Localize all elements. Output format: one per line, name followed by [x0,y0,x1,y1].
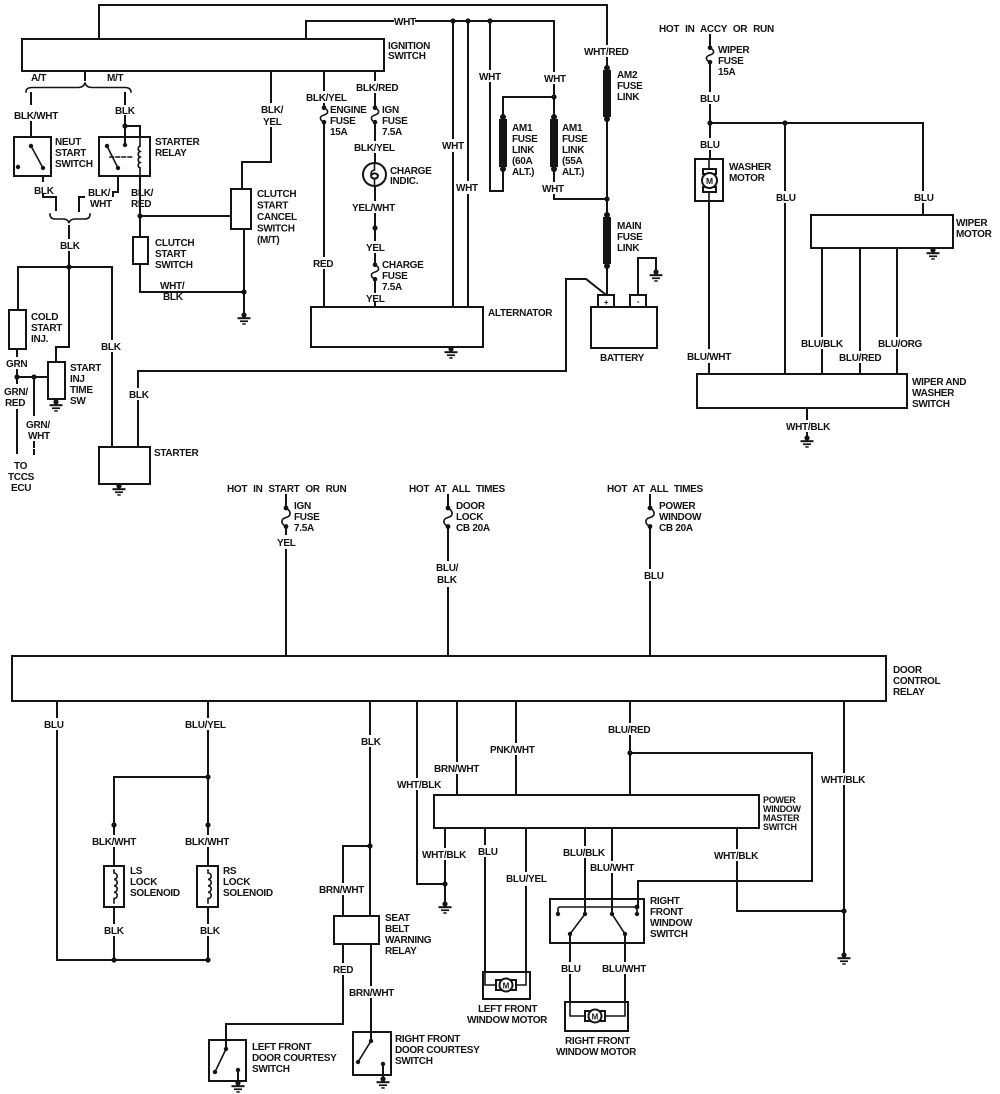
svg-text:ALT.): ALT.) [512,167,534,178]
svg-text:BLK/WHT: BLK/WHT [185,837,229,848]
svg-text:BLU/ORG: BLU/ORG [878,339,923,350]
node: YEL junction [372,225,377,230]
svg-text:RED: RED [5,398,25,409]
svg-text:MAIN: MAIN [617,221,641,232]
svg-text:BLK/: BLK/ [131,188,154,199]
wire BLU/RED into master switch [629,753,631,795]
svg-text:CLUTCH: CLUTCH [257,189,296,200]
clutch start switch box [133,237,148,264]
svg-text:DOOR COURTESY: DOOR COURTESY [395,1045,480,1056]
seat belt warning relay box [334,916,379,944]
svg-text:CB 20A: CB 20A [456,523,490,534]
svg-text:WHT/BLK: WHT/BLK [422,850,467,861]
svg-text:(M/T): (M/T) [257,235,279,246]
svg-text:WHT/BLK: WHT/BLK [821,775,866,786]
left front window motor box [483,972,530,999]
ground: alternator [450,347,452,349]
svg-text:AM1: AM1 [562,123,583,134]
svg-text:SWITCH: SWITCH [257,224,295,235]
svg-text:WHT: WHT [479,72,501,83]
svg-text:WHT/BLK: WHT/BLK [714,851,759,862]
svg-text:STARTER: STARTER [154,448,199,459]
wire from cancel switch to ground node [243,229,245,315]
node: bus feed dot [635,905,640,910]
fuse: ENGINE FUSE 15A [320,106,327,125]
svg-text:RED: RED [333,965,353,976]
wire BLK/RED from starter relay coil [139,176,141,216]
node: WHT bus junction 2 [465,18,470,23]
svg-text:FUSE: FUSE [512,134,538,145]
right front window switch box [550,899,644,943]
wire BRN/WHT relay to master switch [456,701,458,795]
svg-text:7.5A: 7.5A [382,127,402,138]
ground: start inj time sw [55,399,57,402]
svg-text:HOT AT ALL TIMES: HOT AT ALL TIMES [409,484,506,495]
svg-text:RED: RED [313,259,333,270]
ground: wiper motor [927,247,940,259]
svg-text:RS: RS [223,866,237,877]
wire BLU master switch to left window motor [484,828,486,972]
wire BLU switch to right window motor [569,934,571,1002]
wire RED to left courtesy switch [226,944,343,1040]
wire BLK tap to start inj time sw [56,267,69,362]
LS solenoid coil [114,870,117,903]
fuse link AM1 (60A ALT.) [500,114,506,120]
fuse link AM2 [604,65,610,71]
node: WHT/BLK ground junction [442,881,447,886]
svg-text:WHT: WHT [28,431,50,442]
svg-text:BRN/WHT: BRN/WHT [349,988,394,999]
fuse: CHARGE FUSE 7.5A [371,263,378,282]
wire WHT from right AM1 to main bus [554,171,607,199]
starter relay contacts and arm [123,143,127,147]
brace joining BLK and BLK/WHT [50,214,90,223]
node: BLK junction at seat belt relay [367,843,372,848]
svg-text:BLU/: BLU/ [436,563,459,574]
wire WHT/BLK switch to ground [806,408,808,438]
node: solenoid return junction left [111,957,116,962]
svg-text:SWITCH: SWITCH [763,822,797,832]
wire BLU/YEL to RS solenoid [207,777,209,825]
svg-text:BLU/WHT: BLU/WHT [590,863,634,874]
svg-text:LINK: LINK [617,243,640,254]
svg-text:LINK: LINK [617,92,640,103]
ground: master switch [444,884,446,904]
svg-text:BLU/YEL: BLU/YEL [185,720,226,731]
svg-text:AM2: AM2 [617,70,638,81]
left front door courtesy switch box [209,1040,246,1081]
svg-text:YEL: YEL [277,538,296,549]
node: RS solenoid feed [205,822,210,827]
svg-text:BLK: BLK [104,926,125,937]
alternator box [311,307,483,347]
wire branch BRN/WHT into seat belt relay [343,846,370,916]
svg-text:INJ.: INJ. [31,334,49,345]
fuse: WIPER FUSE 15A [706,46,713,65]
breaker: POWER WINDOW CB 20A [649,495,651,506]
svg-text:BLK: BLK [60,241,81,252]
svg-text:15A: 15A [330,127,348,138]
node: WHT/BLK junction [841,908,846,913]
ignition switch box [22,39,384,71]
wire BLU to door control relay [649,527,651,656]
svg-text:FUSE: FUSE [562,134,588,145]
svg-text:FUSE: FUSE [382,116,408,127]
wire BLK/YEL engine fuse branch [323,71,325,307]
svg-text:IGN: IGN [382,105,399,116]
wire WHT/BLK from clutch start switch [140,264,244,292]
svg-text:YEL: YEL [366,294,385,305]
battery negative terminal [630,295,646,307]
svg-text:HOT IN START OR RUN: HOT IN START OR RUN [227,484,346,495]
right courtesy switch contacts and arm [370,1032,372,1041]
wire BLK distribution [18,267,112,447]
wire BLK/YEL from ignition switch to cancel switch [242,71,271,189]
wire BLK/RED into clutch start switch [139,216,141,237]
svg-text:RIGHT FRONT: RIGHT FRONT [565,1036,630,1047]
svg-text:RED: RED [131,199,151,210]
svg-text:LOCK: LOCK [456,512,484,523]
svg-text:ALTERNATOR: ALTERNATOR [488,308,553,319]
svg-text:RIGHT: RIGHT [650,896,680,907]
wire BLK/RED to clutch start cancel switch [140,215,231,217]
svg-text:WIPER: WIPER [956,218,988,229]
svg-text:LOCK: LOCK [223,877,251,888]
svg-text:FUSE: FUSE [617,232,643,243]
starter relay box [99,137,150,176]
wire WHT to left AM1 fuse link bottom [490,21,503,191]
right front door courtesy switch box [353,1032,391,1075]
wire BLU/YEL master switch to left window motor [525,828,527,972]
svg-text:BLU/YEL: BLU/YEL [506,874,547,885]
washer motor box [695,159,723,201]
svg-text:7.5A: 7.5A [294,523,314,534]
wire BLU/WHT switch to right window motor [624,934,626,1002]
svg-text:BLU: BLU [478,847,498,858]
svg-text:BATTERY: BATTERY [600,353,645,364]
svg-text:WHT/BLK: WHT/BLK [786,422,831,433]
wire BLK to starter relay [125,93,140,146]
svg-text:SWITCH: SWITCH [912,399,950,410]
svg-text:BLK: BLK [361,737,382,748]
neut start switch contacts and arm [29,144,33,148]
right window motor symbol [570,1002,625,1016]
svg-text:WHT/BLK: WHT/BLK [397,780,442,791]
svg-text:WHT: WHT [442,141,464,152]
node: BLK/RED junction [137,213,142,218]
right window switch arms [570,914,625,934]
svg-text:SOLENOID: SOLENOID [130,888,180,899]
right front window motor box [565,1002,628,1031]
svg-text:START: START [70,363,101,374]
svg-text:CONTROL: CONTROL [893,676,941,687]
svg-text:DOOR: DOOR [456,501,486,512]
fuse link AM1 (55A ALT.) [551,114,557,120]
svg-text:M: M [592,1013,599,1022]
svg-text:BLU: BLU [914,193,934,204]
svg-text:BLK: BLK [129,390,150,401]
svg-text:YEL: YEL [263,117,282,128]
wire: ignition switch feed to top WHT bus [99,5,607,66]
svg-text:FUSE: FUSE [330,116,356,127]
svg-text:M: M [706,176,713,186]
svg-text:FUSE: FUSE [294,512,320,523]
svg-text:STARTER: STARTER [155,137,200,148]
node: solenoid return junction right [205,957,210,962]
node: LS solenoid feed [111,822,116,827]
svg-text:ENGINE: ENGINE [330,105,367,116]
fuse: IGN FUSE 7.5A [285,495,287,506]
svg-text:SWITCH: SWITCH [650,929,688,940]
wire BLK into seat belt relay [369,846,371,916]
svg-text:SWITCH: SWITCH [395,1056,433,1067]
wire BLK from relay to seat belt warning relay [369,701,371,846]
svg-text:TO: TO [14,461,28,472]
node: BLU junction for switch feed [782,120,787,125]
svg-text:BLK/: BLK/ [88,188,111,199]
wire WHT alternator sense 2 [467,21,469,307]
svg-text:RELAY: RELAY [385,946,417,957]
door control relay box [12,656,886,701]
brace A/T,M/T [26,83,131,93]
wire BLU/RED wiper motor to switch [859,248,861,374]
charge indicator bulb [363,163,386,186]
wire BLK/WHT from starter relay [79,176,118,211]
svg-text:BLU: BLU [644,571,664,582]
svg-text:WIPER: WIPER [718,45,750,56]
svg-text:YEL/WHT: YEL/WHT [352,203,395,214]
wire battery negative to ground [638,258,656,295]
svg-text:NEUT: NEUT [55,137,81,148]
wire BLK from RS solenoid [207,907,209,960]
svg-text:WHT: WHT [544,74,566,85]
svg-text:TIME: TIME [70,385,93,396]
ground: starter [118,484,120,486]
svg-text:CLUTCH: CLUTCH [155,238,194,249]
terminal tick under ignition switch [84,71,86,80]
svg-text:AM1: AM1 [512,123,533,134]
wire PNK/WHT relay to master switch [515,701,517,795]
svg-text:WINDOW: WINDOW [659,512,702,523]
svg-text:BLU/RED: BLU/RED [608,725,650,736]
wire YEL to door control relay [285,527,287,656]
wire WHT/BLK master switch to ground junction [444,828,446,884]
node: GRN junction 2 [31,374,36,379]
svg-text:BLU/BLK: BLU/BLK [563,848,606,859]
svg-text:WIPER AND: WIPER AND [912,377,966,388]
svg-text:M/T: M/T [107,73,124,84]
starter relay coil [138,146,140,168]
neut start switch box [14,137,51,176]
svg-text:START: START [155,249,186,260]
svg-text:BLK/RED: BLK/RED [356,83,398,94]
svg-text:BLK/: BLK/ [261,105,284,116]
wire BLK/WHT into RS solenoid [207,825,209,866]
wire BLK/WHT into LS solenoid [113,825,115,866]
svg-text:COLD: COLD [31,312,58,323]
wire BLU/BLK to door control relay [447,527,449,656]
wire BRN/WHT to right courtesy switch [370,944,372,1032]
svg-text:WASHER: WASHER [729,162,772,173]
svg-text:+: + [604,298,609,307]
wire WHT alternator sense 1 [452,21,454,307]
wire BLK from LS solenoid [113,907,115,960]
ground: left courtesy switch [237,1070,239,1083]
svg-text:BLK: BLK [101,342,122,353]
left window motor symbol [485,972,526,985]
svg-text:WASHER: WASHER [912,388,955,399]
svg-text:FUSE: FUSE [718,56,744,67]
svg-text:SEAT: SEAT [385,913,410,924]
wiper motor box [811,215,953,248]
svg-text:BLU: BLU [44,720,64,731]
wire BLU/RED relay to master switch [629,701,631,753]
svg-text:BLU: BLU [776,193,796,204]
wire BLU/YEL from relay [207,701,209,777]
svg-text:SWITCH: SWITCH [55,159,93,170]
svg-text:INJ: INJ [70,374,85,385]
svg-text:15A: 15A [718,67,736,78]
svg-text:CHARGE: CHARGE [382,260,424,271]
svg-text:SWITCH: SWITCH [155,260,193,271]
svg-text:SW: SW [70,396,86,407]
svg-text:LOCK: LOCK [130,877,158,888]
svg-text:YEL: YEL [366,243,385,254]
wire GRN from cold start injector [16,349,18,377]
wire BLU/BLK master switch to right window switch [584,828,586,914]
right window switch bus bar [558,907,637,914]
svg-text:LEFT FRONT: LEFT FRONT [478,1004,537,1015]
svg-text:WINDOW: WINDOW [650,918,693,929]
svg-text:LINK: LINK [512,145,535,156]
right window switch contacts [556,912,560,916]
left courtesy switch contacts and arm [225,1040,227,1049]
wire BLU/WHT master switch to right window switch [611,828,613,914]
wire to right AM1 fuse link [553,97,555,117]
washer motor symbol [708,159,710,201]
svg-text:WHT: WHT [456,183,478,194]
svg-text:BLU: BLU [561,964,581,975]
svg-text:WHT/RED: WHT/RED [584,47,629,58]
svg-text:BLU/WHT: BLU/WHT [687,352,731,363]
node: BLU junction at washer motor [707,120,712,125]
wire BLK/WHT to neut start switch [30,93,32,137]
svg-text:DOOR: DOOR [893,665,923,676]
ground: window circuit [838,952,851,964]
wire BLU from wiper fuse [709,63,711,123]
wire GRN/RED to TCCS ECU [16,377,18,453]
wire GRN to start inj time sw [17,376,48,378]
svg-text:FUSE: FUSE [617,81,643,92]
svg-text:PNK/WHT: PNK/WHT [490,745,535,756]
wire wiper fuse stub [709,35,711,45]
svg-text:BLU: BLU [700,94,720,105]
svg-text:BLK/YEL: BLK/YEL [306,93,347,104]
svg-text:WINDOW MOTOR: WINDOW MOTOR [467,1015,548,1026]
wire WHT/BLK relay to window ground [843,701,845,955]
fuse: IGN FUSE 7.5A [371,106,378,125]
svg-text:DOOR COURTESY: DOOR COURTESY [252,1053,337,1064]
svg-text:HOT IN ACCY OR RUN: HOT IN ACCY OR RUN [659,24,774,35]
svg-text:BLK: BLK [163,292,184,303]
ground: battery negative [650,269,663,281]
svg-text:BLK: BLK [200,926,221,937]
svg-text:WARNING: WARNING [385,935,432,946]
wire: ignition switch to second WHT bus [306,21,554,95]
svg-text:BLK/WHT: BLK/WHT [92,837,136,848]
cold start injector box [9,310,26,349]
svg-text:7.5A: 7.5A [382,282,402,293]
wire to left AM1 fuse link top [503,97,554,117]
svg-text:CANCEL: CANCEL [257,212,297,223]
svg-text:ECU: ECU [11,483,31,494]
ground: wiper washer switch [801,435,814,447]
svg-text:WHT: WHT [542,184,564,195]
svg-text:(60A: (60A [512,156,533,167]
svg-text:BLK: BLK [34,186,55,197]
node: AM1 top junction [551,94,556,99]
wire BLU/YEL branch to LS solenoid [114,777,208,825]
svg-text:BLK: BLK [115,106,136,117]
svg-text:RELAY: RELAY [155,148,187,159]
wire BLU/RED branch to right window switch [630,753,812,907]
ground: right courtesy switch [382,1064,384,1079]
wire AM2 to main fuse link [606,121,608,213]
svg-text:SWITCH: SWITCH [388,51,426,62]
svg-text:START: START [55,148,86,159]
wire BLK from neut start switch [43,176,56,210]
starter box [99,447,150,484]
wiper and washer switch box [697,374,907,408]
wire BLU bus to wiper motor [710,123,923,215]
wire GRN/WHT to TCCS ECU [33,377,35,415]
svg-text:GRN/: GRN/ [4,387,28,398]
svg-text:TCCS: TCCS [8,472,35,483]
battery positive terminal [598,295,614,307]
svg-text:BLK/WHT: BLK/WHT [14,111,58,122]
svg-text:BLU: BLU [700,140,720,151]
wire WHT/BLK from relay to ground junction [417,701,445,884]
svg-text:INDIC.: INDIC. [390,176,419,187]
svg-text:BLU/BLK: BLU/BLK [801,339,844,350]
svg-text:CB 20A: CB 20A [659,523,693,534]
svg-text:SOLENOID: SOLENOID [223,888,273,899]
svg-text:START: START [31,323,62,334]
svg-text:LINK: LINK [562,145,585,156]
svg-text:WHT/: WHT/ [160,281,185,292]
node: WHT bus junction 3 [487,18,492,23]
wire BLU to washer motor [709,123,711,159]
breaker: DOOR LOCK CB 20A [447,495,449,506]
node: BLK junction [66,264,71,269]
start inj time switch box [48,362,65,399]
svg-text:IGN: IGN [294,501,311,512]
svg-text:FRONT: FRONT [650,907,683,918]
svg-text:RIGHT FRONT: RIGHT FRONT [395,1034,460,1045]
svg-text:BRN/WHT: BRN/WHT [319,885,364,896]
node: BLU/RED junction [627,750,632,755]
svg-text:MOTOR: MOTOR [729,173,766,184]
svg-text:FUSE: FUSE [382,271,408,282]
svg-text:GRN: GRN [6,359,27,370]
svg-text:WHT: WHT [394,17,416,28]
clutch start cancel switch box [231,189,251,229]
power window master switch box [434,795,759,828]
svg-text:BLK: BLK [437,575,458,586]
wire BLK/RED ign fuse branch [374,71,376,307]
wire BLU/WHT washer motor to switch [708,201,710,374]
svg-text:SWITCH: SWITCH [252,1064,290,1075]
